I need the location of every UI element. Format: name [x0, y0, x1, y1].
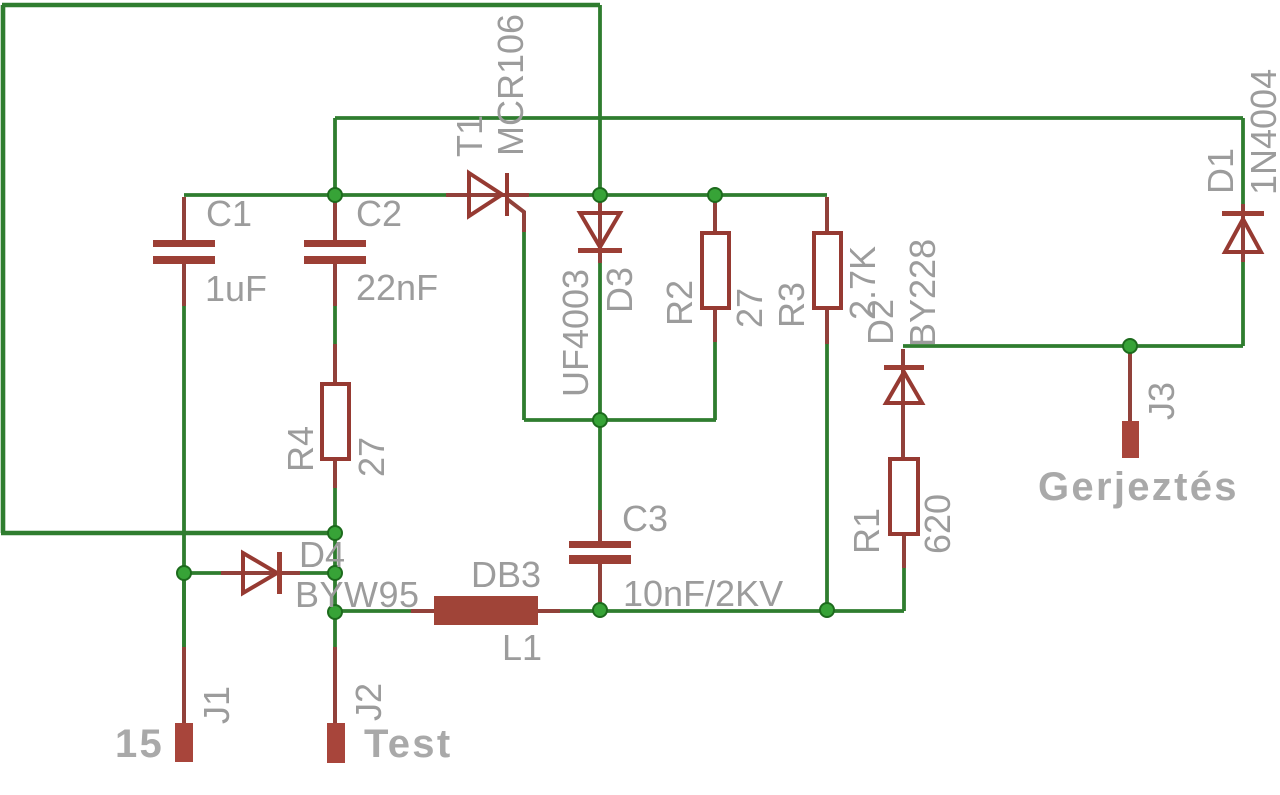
wire vertical x=600 from top border: [598, 5, 602, 197]
svg-text:1uF: 1uF: [205, 268, 267, 309]
pin J1 vertical: [182, 647, 186, 725]
pin R2 top: [713, 199, 717, 233]
pin R4 top: [333, 344, 337, 384]
svg-text:DB3: DB3: [471, 554, 541, 595]
pin R3 bottom: [825, 308, 829, 344]
svg-text:J3: J3: [1141, 382, 1182, 420]
wire main horizontal y=195 left part: [184, 193, 447, 197]
pin C3 top: [598, 510, 602, 542]
svg-text:R1: R1: [846, 508, 887, 554]
resistor R1: [890, 459, 918, 534]
pin C2 top: [333, 199, 337, 240]
svg-text:27: 27: [351, 437, 392, 477]
diode D4: [243, 552, 282, 594]
wire R2 bottom vertical: [713, 342, 717, 420]
pin R3 top: [825, 197, 829, 233]
svg-text:T1: T1: [449, 115, 490, 157]
wire D3 bottom vertical: [598, 263, 602, 420]
pin D1 vertical: [1241, 204, 1245, 262]
inductor L1: [434, 596, 538, 625]
junction node D4 cathode: [328, 566, 342, 580]
wire R4 bottom to node column: [333, 488, 337, 647]
wire C2 to R4 vertical: [333, 306, 337, 344]
resistor R3: [814, 233, 841, 308]
pin L1 right: [538, 609, 560, 613]
pad J1: [175, 723, 193, 762]
pin C3 bottom: [598, 563, 602, 606]
junction node D4 anode: [177, 566, 191, 580]
junction node J3 top: [1123, 339, 1137, 353]
svg-text:MCR106: MCR106: [490, 14, 531, 156]
wire vertical x=1243 upper to D1: [1241, 118, 1245, 204]
pin L1 left: [411, 609, 434, 613]
svg-text:620: 620: [917, 494, 958, 554]
pin C1 bottom: [182, 263, 186, 306]
svg-text:C1: C1: [206, 193, 252, 234]
junction node C2 top: [328, 188, 342, 202]
junction node D3 top: [593, 188, 607, 202]
svg-text:Test: Test: [364, 722, 452, 766]
svg-text:15: 15: [115, 722, 164, 766]
wire R3 bottom vertical: [825, 344, 829, 611]
pin R1 bottom: [902, 534, 906, 568]
pin R4 bottom: [333, 459, 337, 488]
svg-text:J1: J1: [196, 686, 237, 724]
svg-text:J2: J2: [348, 683, 389, 721]
svg-text:BY228: BY228: [902, 239, 943, 347]
pin D2 vertical through to R1: [901, 349, 905, 460]
junction node gate-D3: [593, 413, 607, 427]
svg-text:C2: C2: [356, 193, 402, 234]
diode D3: [578, 213, 622, 253]
junction node R3 bottom: [820, 603, 834, 617]
wire main horizontal y=195 right part: [528, 193, 827, 197]
pin T1 gate diagonal: [507, 199, 524, 232]
pin C2 bottom: [333, 263, 337, 306]
junction node C3 bottom: [593, 603, 607, 617]
pin D4 horizontal: [221, 571, 300, 575]
junction node left column: [328, 526, 342, 540]
wire top border horizontal: [2, 3, 600, 8]
diode D1: [1222, 211, 1264, 252]
diode D2: [884, 365, 924, 403]
pin R2 bottom: [713, 308, 717, 342]
wire bottom horizontal left of L1: [335, 609, 411, 613]
wire vertical x=335 upper: [333, 118, 337, 195]
svg-text:D2: D2: [860, 299, 901, 345]
thyristor T1: [469, 173, 507, 216]
wire C3 bottom short green: [598, 592, 602, 611]
wire left border vertical: [1, 5, 6, 533]
wire J1 vertical green: [182, 573, 186, 647]
wire gate node horizontal y=420: [524, 418, 716, 422]
capacitor C2: [304, 240, 366, 264]
svg-text:R4: R4: [280, 426, 321, 472]
wire bottom-left horizontal to node: [1, 531, 336, 536]
capacitor C1: [153, 240, 215, 264]
svg-text:22nF: 22nF: [356, 267, 438, 308]
wire C3 top vertical: [598, 420, 602, 510]
svg-text:1N4004: 1N4004: [1243, 69, 1280, 195]
svg-text:BYW95: BYW95: [295, 574, 420, 615]
pin J2 vertical: [333, 647, 337, 725]
wire T1 gate vertical: [522, 232, 526, 420]
resistor R4: [322, 384, 349, 459]
svg-text:C3: C3: [622, 498, 668, 539]
wire C1 lower vertical: [182, 306, 186, 647]
wire D4 cathode to node: [300, 571, 335, 575]
capacitor C3: [569, 541, 631, 564]
svg-text:R3: R3: [771, 282, 812, 328]
wire D4 anode: [184, 571, 221, 575]
resistor R2: [702, 233, 729, 308]
wire horizontal y=346 to D2: [903, 344, 1243, 348]
pad J3: [1122, 421, 1139, 458]
svg-text:D4: D4: [299, 534, 345, 575]
svg-text:27: 27: [729, 288, 770, 328]
pad J2: [327, 723, 345, 763]
svg-text:Gerjeztés: Gerjeztés: [1038, 465, 1239, 509]
wire bottom horizontal right of L1: [560, 609, 904, 613]
pin C1 top: [182, 197, 186, 240]
svg-text:UF4003: UF4003: [555, 269, 596, 397]
svg-text:D3: D3: [599, 267, 640, 313]
pin D3 vertical: [598, 197, 602, 263]
pin J3 vertical: [1128, 351, 1132, 423]
wire D1 bottom vertical: [1241, 262, 1245, 346]
svg-text:R2: R2: [659, 280, 700, 326]
wire R1 bottom corner vertical: [902, 568, 906, 611]
svg-text:10nF/2KV: 10nF/2KV: [623, 573, 783, 614]
svg-text:D1: D1: [1200, 148, 1241, 194]
wire mid horizontal y=118: [335, 116, 1243, 120]
junction node J2 top: [328, 605, 342, 619]
pin T1 horizontal: [446, 193, 529, 197]
junction node R2 top: [708, 188, 722, 202]
svg-text:L1: L1: [502, 627, 542, 668]
